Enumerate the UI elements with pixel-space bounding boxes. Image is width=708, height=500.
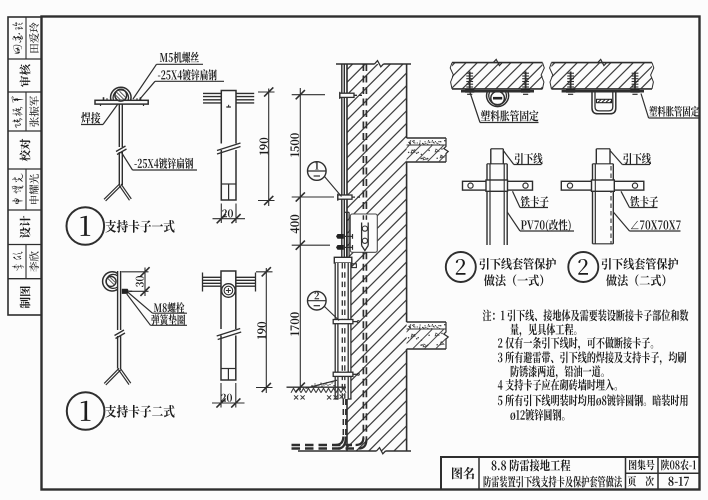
- caption: support clamp type 2: [105, 405, 174, 418]
- title block outer box: [441, 457, 700, 490]
- wall right face line: [406, 64, 408, 138]
- detail angle: iron clamp bar with screws: [561, 181, 644, 190]
- detail2 side: C-shaped clamp strap: [103, 272, 118, 291]
- detail bubble circle 1 for type-2 clamp: [67, 392, 105, 430]
- protection tube walls: [334, 263, 336, 399]
- sidebar label shen he (review): [20, 64, 31, 86]
- extension line at first clamp level: [292, 94, 325, 96]
- detail1 side: vertical flat bar: [221, 91, 236, 201]
- detail PV70: bare conductor at top: [490, 149, 492, 164]
- detail bubble circle 1 for type-1 clamp: [67, 207, 105, 245]
- support clamp on face at first level: [340, 93, 354, 97]
- ground surface line: [287, 386, 347, 388]
- dashed conductor stubs inside box: [362, 215, 364, 222]
- page number 8-17: [668, 477, 689, 486]
- sidebar handwritten signature shen yao guang: [12, 173, 24, 204]
- sidebar handwritten signature tian ai ling: [12, 22, 23, 53]
- protective mound slope with dotted fill: [310, 380, 338, 387]
- expansion screw in wall: [634, 72, 636, 90]
- detail PV70: plastic tube walls: [486, 164, 488, 245]
- conductor below tube dashed pair going down: [342, 399, 344, 437]
- atlas number shaan 08 nong -1: [661, 459, 696, 470]
- tube bottom end marks: [335, 398, 339, 400]
- title bar sidebar outer box: [8, 17, 42, 315]
- caption sleeve protection method 1 line2: [484, 274, 543, 286]
- detail PV70: clamp collar around tube: [486, 180, 508, 191]
- label plastic expansion tube fixing A: [470, 93, 480, 123]
- caption sleeve protection method 2 line2: [606, 274, 665, 286]
- protection tube top cap: [334, 257, 352, 263]
- sidebar label zhi tu (drafting): [20, 286, 31, 308]
- conductor hidden inside tube dashed: [341, 263, 343, 399]
- detail2 side: vertical rod: [117, 271, 119, 330]
- sidebar printed name tian ai ling: [29, 23, 39, 53]
- disconnect clamp bolts (black) on surface strap: [336, 234, 344, 239]
- sidebar label she ji (design): [20, 216, 31, 238]
- label M8 bolt with leader: [128, 293, 152, 314]
- caption sleeve protection method 2 line1: [602, 258, 679, 270]
- dimension text 1500: [290, 133, 299, 157]
- detail1 front: round conductor cross-section in clamp: [115, 89, 127, 101]
- expansion screw in wall: [570, 72, 572, 90]
- detail reference bubble 1 on wall: [308, 162, 327, 181]
- label tu ji hao (atlas no.): [629, 460, 654, 471]
- detail2 front: vertical flat bar: [221, 271, 236, 380]
- detail1 front: forked feet (double line): [104, 184, 120, 199]
- detail1 side: break symbol: [220, 144, 238, 151]
- expansion screw in wall: [525, 72, 527, 90]
- dimension text 400: [290, 215, 299, 234]
- sidebar label jiao dui (proofread): [20, 139, 31, 162]
- detail angle: angle steel outline: [592, 164, 594, 244]
- label tiekazi (iron clamp) A: [513, 191, 521, 207]
- down conductor on wall face (double line): [341, 64, 343, 258]
- detail1 side: clamp plates seen edge-on: [203, 92, 254, 94]
- title block label tu ming (drawing name): [452, 467, 474, 479]
- wall dimension line vertical: [299, 88, 301, 390]
- extension line at disconnect clamp level: [292, 244, 330, 246]
- detail2 side: M8 bolt black head: [122, 289, 129, 294]
- wall bottom edge with break mark: [298, 450, 377, 452]
- dimension 20 for detail2: [220, 383, 222, 408]
- fixing bar under wall strip B: [562, 90, 644, 93]
- bend of embedded conductor pair to horizontal ground run: [356, 438, 364, 446]
- sidebar printed name li xin: [29, 251, 39, 271]
- label yinxiaxian (down conductor) B: [610, 151, 622, 165]
- detail1 side: bolt mark: [226, 106, 231, 108]
- sidebar handwritten signature zhang zhen jun: [12, 96, 24, 128]
- label -25X4 galvanized flat steel upper with leader: [158, 69, 217, 80]
- bubble 2 sleeve method 2: [568, 252, 598, 282]
- dimension text 1700: [290, 312, 299, 335]
- dimension 190 for detail1: [268, 89, 270, 207]
- detail reference bubble 2 on wall: [308, 291, 327, 310]
- detail2 side: conductor circle in strap: [106, 276, 116, 286]
- round clamp U-strap below bar: [487, 92, 509, 106]
- label yinxiaxian (down conductor) A: [503, 151, 514, 165]
- floor slab lower right: outline with end break: [407, 321, 446, 323]
- dimension 190 for detail2: [265, 268, 267, 393]
- detail2 front: bottom slot: [221, 368, 236, 370]
- soil hatch marks under ground line (zigzag + x row): [291, 388, 346, 393]
- notes block zhu 1-5: [483, 309, 689, 321]
- caption: support clamp type 1: [105, 220, 174, 233]
- tube clamp lower: [333, 372, 353, 376]
- detail2 side: forked feet (double line): [104, 368, 119, 383]
- fixing bar under wall strip A: [461, 90, 534, 93]
- extension line at second clamp level: [292, 196, 334, 198]
- label plastic expansion tube fixing B: [641, 94, 649, 119]
- disconnect clamp surface strap on wall face: [346, 212, 348, 258]
- label tiekazi (iron clamp) B: [621, 191, 630, 207]
- tube clamp upper: [333, 320, 353, 324]
- detail1 side: bottom slot of fork: [221, 183, 236, 185]
- label weld (hanjie) with leader: [81, 112, 100, 124]
- label -25X4 galvanized flat steel lower with leader: [134, 158, 193, 169]
- detail2 front: bolt circle: [222, 284, 236, 298]
- disconnect test clamp white box in wall: [350, 214, 377, 252]
- wall brick hatching 45deg: [340, 64, 407, 451]
- detail1 front: bolt nubs on bar: [103, 97, 105, 100]
- disconnect clamp embedded part: strap with bolt holes and pointed end: [361, 223, 363, 246]
- wall top edge with break mark: [336, 63, 375, 65]
- horizontal grounding conductor dashed double run: [292, 444, 353, 447]
- sidebar printed name shen yao guang: [29, 174, 39, 204]
- label M5 machine screw with leader: [160, 52, 199, 63]
- title block vertical dividers: [478, 457, 480, 490]
- label angle steel L70X70X7: [613, 212, 629, 231]
- detail PV70: iron clamp bar with screws: [463, 181, 533, 190]
- protection tube body white mask: [335, 263, 351, 399]
- floor slab upper right: outline with end break: [407, 137, 446, 139]
- sidebar handwritten signature li xin: [12, 252, 24, 271]
- detail angle: hidden edge dashed line: [610, 166, 612, 244]
- bubble 2 sleeve method 1: [446, 252, 476, 282]
- square channel clamp below bar: [592, 93, 616, 114]
- detail2 front: break symbol: [220, 329, 238, 336]
- sidebar printed name zhang zhen jun: [29, 96, 39, 127]
- label PV70 modified tube: [507, 212, 520, 231]
- title text line 2: down conductor support & sleeve method: [484, 476, 622, 488]
- wall left face line: [346, 64, 348, 257]
- detail1 front: break symbol on rod: [116, 146, 126, 152]
- support clamp on face at second level: [338, 195, 352, 199]
- sidebar signature cell dividers: [25, 17, 27, 59]
- expansion screw in wall: [469, 72, 471, 90]
- embedded conductor dashed pair in wall: [362, 64, 364, 222]
- flat conductor section inside channel: [597, 99, 612, 102]
- detail angle: clamp collar: [592, 180, 615, 191]
- detail2 side: break symbol: [115, 330, 125, 336]
- dimension 30 of detail2: [122, 271, 149, 273]
- dashed pair below box to bottom bend: [362, 252, 364, 438]
- label ye ci (page): [628, 476, 654, 487]
- detail1 front: flat steel bar -25x4 seen edge-on: [95, 100, 148, 104]
- label spring washer with leader: [127, 294, 151, 325]
- detail1 front: vertical rod upper part: [118, 104, 120, 147]
- dimension 20 for detail1: [220, 204, 222, 224]
- round conductor section in clamp with bar mark: [491, 91, 505, 105]
- detail2 front: clamp plates seen edge-on with end caps: [203, 276, 256, 278]
- title text line 1: 8.8 lightning grounding works: [492, 459, 571, 471]
- bend of surface conductor pair to horizontal ground run: [336, 437, 344, 446]
- detail angle: bare conductor at top: [595, 149, 597, 164]
- title block horizontal divider right part: [626, 472, 700, 474]
- caption sleeve protection method 1 line1: [479, 258, 556, 270]
- detail1 front: clamp strap semicircular arcs: [111, 87, 131, 100]
